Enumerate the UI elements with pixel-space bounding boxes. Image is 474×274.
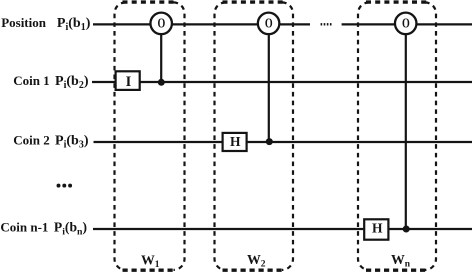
control dot on Coin 1 wire (W1) (158, 79, 165, 86)
gate H box in Wn (364, 219, 388, 239)
oracle gate O in W1 (150, 13, 172, 35)
svg-text:Pi(b1): Pi(b1) (57, 16, 91, 33)
control dot on Coin 2 wire (W2) (266, 138, 273, 145)
svg-text:Coin 2: Coin 2 (13, 132, 49, 147)
ellipsis dots on position wire (321, 23, 332, 25)
control wire W2 (268, 30, 270, 142)
control wire Wn (405, 30, 407, 229)
control dot on Coin n-1 wire (Wn) (403, 226, 410, 233)
oracle gate O in W2 (258, 13, 280, 35)
svg-text:Coin n-1: Coin n-1 (0, 220, 48, 235)
svg-text:O: O (265, 15, 273, 30)
svg-text:H: H (372, 221, 383, 236)
wire Coin 1 P_i(b_2) (92, 81, 472, 83)
control wire W1 (160, 30, 162, 82)
svg-text:O: O (402, 15, 410, 30)
svg-text:Pi(b3): Pi(b3) (55, 133, 89, 150)
vertical ellipsis between coin wires (57, 184, 73, 188)
gate I box in W1 (116, 71, 140, 90)
oracle gate O in Wn (395, 13, 417, 35)
svg-text:H: H (230, 134, 241, 149)
svg-text:Pi(b2): Pi(b2) (55, 74, 89, 91)
svg-text:Coin 1: Coin 1 (13, 73, 49, 88)
svg-text:Position: Position (1, 15, 47, 30)
svg-text:I: I (126, 74, 132, 90)
wire Position P_i(b_1) right segment (342, 23, 472, 25)
wire Coin 2 P_i(b_3) (94, 141, 473, 143)
dashed box W2 outline (215, 2, 294, 270)
svg-text:O: O (158, 15, 166, 30)
dashed box W1 outline (115, 2, 185, 270)
gate H box in W2 (223, 133, 247, 151)
dashed box Wn outline (358, 2, 436, 270)
wire Coin n-1 P_i(b_n) (93, 228, 472, 230)
wire Position P_i(b_1) left segment (93, 23, 310, 25)
